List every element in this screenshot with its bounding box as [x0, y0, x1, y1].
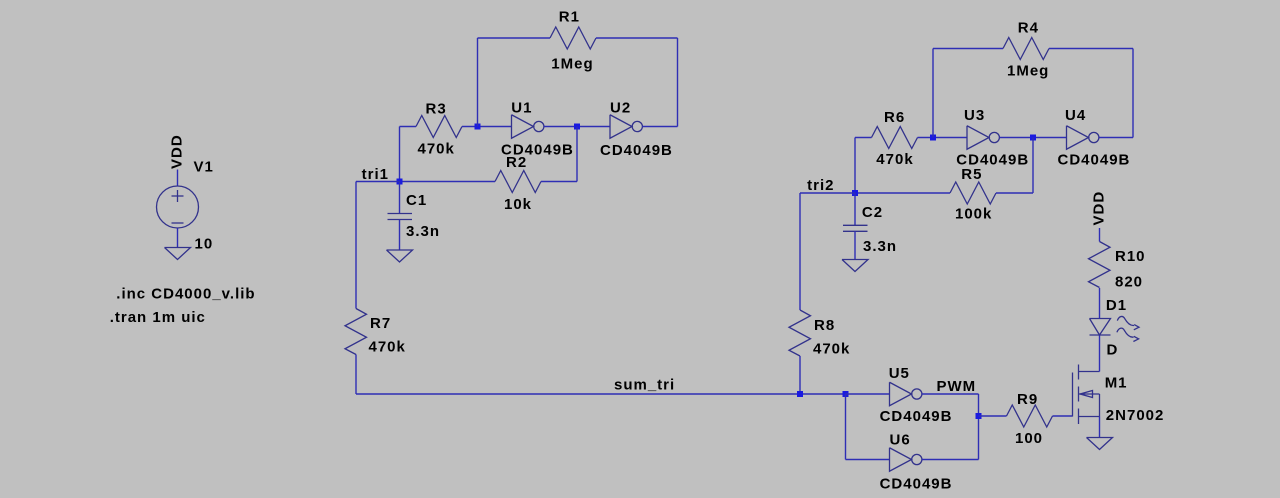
wire U2 out [642, 126, 677, 128]
wire R1 left lead [478, 37, 551, 39]
wire R2 riser to U1 out [576, 127, 578, 182]
LED D1 [1090, 319, 1111, 336]
wire drain up to LED [1099, 335, 1101, 372]
wire tri1 to C1 [399, 182, 401, 214]
svg-text:820: 820 [1115, 274, 1143, 291]
wire R1 right lead [596, 37, 678, 39]
wire feedback riser right R4 [1132, 49, 1134, 138]
wire R6 left lead [855, 137, 872, 139]
node junction R6-U3 [930, 135, 936, 141]
wire U3 out to U4 in [999, 137, 1066, 139]
svg-text:U1: U1 [511, 100, 532, 117]
svg-text:PWM: PWM [937, 378, 977, 395]
voltage source V1 [177, 170, 179, 187]
wire U4 out [1099, 137, 1133, 139]
node junction R3-U1 [475, 124, 481, 130]
wire tri2 left [800, 192, 855, 194]
resistor R2 [495, 171, 541, 193]
ground of V1 [165, 248, 191, 260]
ground of C2 [842, 260, 868, 272]
svg-text:R6: R6 [884, 109, 905, 126]
inverter U2 [610, 115, 632, 139]
node junction R8-sum_tri [797, 391, 803, 397]
svg-text:CD4049B: CD4049B [880, 408, 953, 425]
svg-text:1Meg: 1Meg [551, 56, 593, 73]
wire VDD to R10 [1099, 228, 1101, 242]
node junction U5-U6 split [843, 391, 849, 397]
wire U5 out [922, 393, 979, 395]
wire down to R8 [799, 193, 801, 310]
svg-text:10: 10 [195, 236, 214, 253]
svg-text:U5: U5 [889, 365, 910, 382]
wire R2 to riser [541, 181, 577, 183]
inverter U1 [512, 115, 534, 139]
svg-text:VDD: VDD [169, 134, 186, 169]
svg-text:D1: D1 [1106, 297, 1127, 314]
wire R8 to sum_tri row [799, 356, 801, 394]
capacitor C1 [388, 213, 413, 215]
node junction U1-U2 [574, 124, 580, 130]
ground of M1 [1087, 438, 1113, 450]
node junction PWM-R9 [976, 413, 982, 419]
resistor R9 [1007, 405, 1053, 427]
wire R6 to U3 [918, 137, 968, 139]
svg-text:3.3n: 3.3n [863, 238, 897, 255]
resistor R3 [416, 116, 462, 138]
svg-text:CD4049B: CD4049B [880, 476, 953, 493]
wire feedback riser left R4 [932, 49, 934, 138]
svg-text:470k: 470k [418, 141, 455, 158]
svg-text:.inc CD4000_v.lib: .inc CD4000_v.lib [116, 286, 255, 303]
wire R7 to sum_tri row [355, 355, 357, 395]
svg-text:100k: 100k [955, 206, 992, 223]
svg-text:C2: C2 [862, 204, 883, 221]
svg-text:sum_tri: sum_tri [614, 377, 675, 394]
svg-text:R3: R3 [426, 101, 447, 118]
wire U6 out [922, 459, 979, 461]
svg-text:.tran 1m uic: .tran 1m uic [110, 309, 206, 326]
svg-text:R1: R1 [559, 9, 580, 26]
svg-text:M1: M1 [1105, 375, 1128, 392]
wire C2 to ground [854, 231, 856, 259]
svg-text:R10: R10 [1115, 248, 1146, 265]
svg-text:CD4049B: CD4049B [1058, 152, 1131, 169]
inverter U4 [1067, 126, 1089, 150]
node junction U3-U4 [1030, 135, 1036, 141]
wire tri1 left [356, 181, 400, 183]
svg-text:U4: U4 [1065, 107, 1086, 124]
svg-text:R7: R7 [370, 315, 391, 332]
capacitor C2 [843, 224, 868, 226]
svg-text:R8: R8 [814, 317, 835, 334]
svg-text:VDD: VDD [1091, 191, 1108, 226]
wire feedback riser right [677, 38, 679, 127]
wire tri2 to R5 [855, 192, 950, 194]
svg-text:R2: R2 [506, 154, 527, 171]
wire R3 left lead [400, 126, 417, 128]
wire R3 to U1 [462, 126, 512, 128]
resistor R5 [950, 182, 996, 204]
wire R5 riser to U3 out [1032, 138, 1034, 194]
inverter U6 [890, 448, 912, 472]
wire C1 to ground [399, 220, 401, 251]
svg-text:C1: C1 [406, 192, 427, 209]
svg-text:tri1: tri1 [362, 166, 389, 183]
wire R4 left lead [933, 48, 1003, 50]
svg-text:100: 100 [1015, 430, 1043, 447]
svg-text:R5: R5 [961, 166, 982, 183]
wire tri2 riser to R6 [854, 138, 856, 194]
resistor R7 [345, 309, 367, 355]
wire to U6 [846, 459, 890, 461]
wire feedback riser left [477, 38, 479, 127]
svg-text:470k: 470k [369, 339, 406, 356]
wire LED to R10 [1099, 288, 1101, 319]
svg-text:10k: 10k [504, 196, 532, 213]
ground of C1 [387, 250, 413, 262]
wire U5-U6 output riser [978, 394, 980, 460]
LED light arrow 2 [1117, 328, 1134, 337]
wire tri1 to R2 [400, 181, 496, 183]
svg-text:V1: V1 [194, 159, 214, 176]
wire tri1 riser to R3 [399, 127, 401, 182]
wire U1 out to U2 in [544, 126, 610, 128]
resistor R8 [789, 310, 811, 356]
svg-text:2N7002: 2N7002 [1106, 407, 1165, 424]
wire sum_tri row [356, 393, 846, 395]
inverter U3 [967, 126, 989, 150]
LED light arrow 1 [1117, 316, 1134, 325]
wire M1 source to ground [1099, 417, 1101, 438]
svg-text:U2: U2 [610, 100, 631, 117]
wire R9 to M1 gate [1053, 415, 1073, 417]
resistor R6 [872, 127, 918, 149]
wire R5 to riser [996, 192, 1033, 194]
node tri1 [397, 179, 403, 185]
svg-text:CD4049B: CD4049B [600, 142, 673, 159]
wire R4 right lead [1049, 48, 1133, 50]
svg-text:D: D [1107, 342, 1119, 359]
resistor R4 [1003, 38, 1049, 60]
svg-text:U6: U6 [890, 432, 911, 449]
wire tri2 to C2 [854, 193, 856, 225]
svg-text:3.3n: 3.3n [406, 223, 440, 240]
wire to U5 [846, 393, 890, 395]
resistor R10 [1089, 242, 1111, 288]
svg-text:tri2: tri2 [807, 177, 834, 194]
wire to R9 [979, 415, 1007, 417]
wire down to U6 row [845, 394, 847, 460]
node tri2 [852, 190, 858, 196]
transistor M1 [1072, 373, 1074, 417]
svg-text:U3: U3 [964, 107, 985, 124]
wire down to R7 [355, 182, 357, 309]
svg-text:R4: R4 [1018, 20, 1039, 37]
svg-text:R9: R9 [1017, 391, 1038, 408]
svg-text:470k: 470k [813, 341, 850, 358]
inverter U5 [890, 382, 912, 406]
resistor R1 [550, 27, 596, 49]
svg-text:1Meg: 1Meg [1007, 63, 1049, 80]
svg-text:470k: 470k [876, 151, 913, 168]
